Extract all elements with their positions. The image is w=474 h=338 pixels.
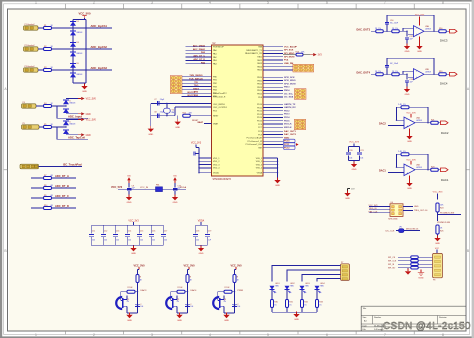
transistor Q1: [116, 297, 122, 309]
ground (reset): [177, 119, 179, 122]
resistor R5: [44, 126, 52, 129]
svg-text:ADC_DT_C: ADC_DT_C: [193, 55, 205, 58]
capacitor C9: [127, 187, 132, 189]
svg-text:ADC_DT_B: ADC_DT_B: [55, 184, 69, 188]
svg-text:USB_DM: USB_DM: [284, 63, 293, 65]
resistor pullup (Q3): [233, 275, 236, 283]
wire R25 to gnd: [437, 234, 439, 238]
svg-text:GND: GND: [127, 202, 132, 204]
diode D6 (clamp down): [70, 73, 76, 77]
ground (C19): [406, 87, 408, 90]
U2 right pins group E wires: [263, 130, 283, 132]
svg-text:IN4148: IN4148: [70, 124, 76, 126]
svg-text:VCC_3V3: VCC_3V3: [349, 142, 360, 144]
svg-text:GND: GND: [345, 198, 350, 200]
resistor R7: [44, 177, 52, 180]
bottom rail (Q1): [127, 312, 138, 314]
svg-text:R32: R32: [304, 302, 307, 304]
svg-text:SPI_CLK: SPI_CLK: [388, 261, 397, 263]
stub pin 1V2: [347, 189, 349, 193]
svg-text:R10: R10: [44, 205, 47, 207]
op-amp U3B: [414, 69, 425, 80]
svg-text:GND: GND: [127, 320, 132, 322]
resistor R19: [439, 73, 447, 76]
svg-text:6: 6: [326, 333, 328, 337]
svg-text:NC_10nF: NC_10nF: [390, 22, 399, 24]
svg-text:PD13: PD13: [284, 114, 290, 116]
svg-text:C12: C12: [104, 231, 107, 233]
wire base loop (Q2): [171, 292, 177, 301]
svg-text:TDO: TDO: [194, 85, 199, 87]
svg-text:VCC_5V0: VCC_5V0: [111, 186, 123, 189]
svg-text:104: 104: [190, 306, 193, 308]
wire LED3 resistor to rail: [301, 308, 303, 313]
ground (cap bank 2): [200, 245, 202, 247]
LED LED2: [285, 286, 290, 290]
resistor R30: [271, 300, 274, 308]
resistor pullup (Q2): [186, 275, 189, 283]
svg-text:ADC_DT_D: ADC_DT_D: [55, 204, 69, 208]
capacitor (Q2): [187, 305, 188, 306]
diode clamp up: [63, 121, 69, 125]
wire R27 to connector: [418, 260, 432, 262]
wire resistor to node (Q1): [137, 283, 139, 292]
svg-text:1: 1: [35, 333, 37, 337]
wire DAC2 input: [388, 124, 404, 126]
svg-text:GND: GND: [86, 114, 91, 116]
LED LED4: [315, 286, 320, 290]
svg-text:DAC4: DAC4: [440, 82, 448, 86]
wire bottom rail to gnd: [84, 83, 86, 86]
svg-text:VCC_3V3: VCC_3V3: [369, 205, 379, 207]
svg-text:VCC_5V0: VCC_5V0: [183, 265, 195, 268]
svg-text:R9: R9: [44, 195, 46, 197]
svg-text:3: 3: [151, 333, 153, 337]
resistor R1: [44, 27, 52, 30]
svg-text:R30: R30: [274, 302, 277, 304]
svg-text:1: 1: [173, 78, 174, 80]
svg-text:C17: C17: [164, 231, 167, 233]
svg-text:R24: R24: [440, 208, 443, 210]
ferrite bead FB1: [156, 187, 163, 192]
svg-text:104: 104: [140, 306, 143, 308]
capacitor C11 branch: [90, 225, 92, 233]
svg-text:7: 7: [173, 88, 174, 90]
svg-text:Revision: Revision: [439, 317, 447, 319]
wire diode to GND arrow: [66, 113, 78, 115]
svg-text:DAC2: DAC2: [379, 123, 386, 126]
connector P5: [22, 125, 40, 129]
screen edge strips: [0, 0, 474, 2]
power arrow 3V3: [303, 54, 310, 56]
svg-text:DAC1: DAC1: [379, 170, 386, 173]
svg-text:SPI2_MOSI: SPI2_MOSI: [284, 83, 296, 85]
svg-text:I2C_TouchPad: I2C_TouchPad: [63, 163, 82, 167]
U2 left pins group C wires: [196, 92, 212, 94]
svg-text:C20: C20: [349, 150, 352, 152]
svg-text:LM358: LM358: [416, 167, 422, 169]
svg-text:-: -: [416, 26, 417, 30]
svg-text:SPI2_MISO: SPI2_MISO: [284, 80, 296, 82]
svg-text:ADC_DMA0: ADC_DMA0: [193, 44, 206, 47]
ground (LED block): [296, 312, 298, 313]
svg-text:SPI_SCK: SPI_SCK: [284, 50, 294, 52]
crystal Y1: [164, 108, 171, 113]
feedback resistor R22: [397, 154, 402, 167]
svg-text:P1 Header2: P1 Header2: [25, 23, 35, 26]
svg-text:GND: GND: [417, 51, 422, 53]
transistor Q2: [166, 297, 172, 309]
svg-text:LM358: LM358: [425, 28, 431, 30]
resistor pullup (Q1): [136, 275, 139, 283]
capacitor C12 branch: [102, 225, 104, 233]
svg-text:I2C_SDA: I2C_SDA: [284, 96, 294, 99]
svg-text:GND: GND: [177, 320, 182, 322]
svg-text:8: 8: [178, 88, 179, 90]
svg-text:TCK_SWCLK: TCK_SWCLK: [189, 79, 203, 81]
capacitor (Q3): [234, 305, 235, 306]
resistor R4: [44, 105, 52, 108]
U2 left pins group A wires: [186, 46, 212, 48]
capacitor C14 branch: [126, 225, 128, 233]
svg-text:+: +: [416, 76, 418, 80]
svg-text:PD10/M2CLKIN: PD10/M2CLKIN: [440, 213, 455, 215]
diode D1 (clamp up): [70, 22, 76, 26]
svg-text:D3: D3: [77, 42, 79, 44]
svg-text:VCC_5V0: VCC_5V0: [79, 12, 91, 16]
port DAC3 out: [450, 29, 458, 33]
wire U3A output: [424, 30, 439, 32]
svg-text:7: 7: [305, 69, 306, 71]
svg-text:8: 8: [310, 69, 311, 71]
svg-text:104: 104: [92, 240, 95, 242]
wire resistor to node (Q2): [187, 283, 189, 292]
wire node to net label ADC_InpCh3: [73, 69, 112, 71]
svg-text:2: 2: [93, 333, 95, 337]
op-amp U5B: [404, 164, 415, 176]
svg-text:VDD_2: VDD_2: [213, 161, 220, 163]
svg-text:PcOut/TamRTC: PcOut/TamRTC: [213, 92, 228, 95]
wire U5B output: [415, 169, 431, 171]
connector P7 (LED): [341, 264, 350, 281]
svg-text:GND: GND: [224, 320, 229, 322]
capacitor C6 (vdd): [192, 152, 194, 156]
svg-text:R16: R16: [439, 28, 442, 30]
svg-text:P8: P8: [433, 280, 435, 282]
svg-text:UART4_TX: UART4_TX: [284, 103, 296, 106]
wire diode column vertical: [72, 20, 74, 84]
svg-text:C7: C7: [154, 99, 156, 101]
svg-text:BOOT1: BOOT1: [187, 95, 195, 97]
resistor R23: [431, 168, 439, 171]
svg-text:STM32F103VET6: STM32F103VET6: [213, 179, 232, 181]
ground (Q2): [179, 313, 181, 314]
svg-text:104: 104: [152, 240, 155, 242]
wire R28 to connector: [418, 263, 432, 265]
connector P2: [24, 47, 39, 51]
resistor R2: [44, 48, 52, 51]
svg-text:C15: C15: [140, 231, 143, 233]
capacitor C7 (osc in): [156, 101, 158, 106]
svg-text:PDR/WKUP: PDR/WKUP: [213, 47, 224, 49]
header J4: [294, 119, 305, 130]
svg-text:+: +: [406, 171, 408, 175]
wire resistor to diode node: [52, 105, 67, 107]
svg-text:8M: 8M: [172, 112, 175, 114]
resistor R13 (right top): [283, 54, 296, 56]
svg-text:GND: GND: [82, 91, 87, 93]
svg-text:2: 2: [178, 78, 179, 80]
connector P4: [22, 104, 37, 108]
resistor base (Q3): [232, 291, 235, 293]
svg-text:PB8_CLK: PB8_CLK: [369, 212, 378, 214]
svg-text:VCC_3V3: VCC_3V3: [128, 220, 139, 222]
wire I2C_CLK: [396, 230, 420, 232]
wire R26 to connector: [418, 256, 432, 258]
connector P1: [24, 26, 39, 30]
header J2: [293, 64, 314, 72]
ground (Q1): [129, 313, 131, 314]
resistor R3: [44, 69, 52, 72]
resistor R8: [44, 187, 52, 190]
resistor R31: [286, 300, 289, 308]
wire LED3 to resistor: [301, 290, 303, 300]
capacitor C17 branch: [162, 225, 164, 233]
svg-text:VCC_5V0: VCC_5V0: [230, 265, 242, 268]
svg-text:DAC_OUT1: DAC_OUT1: [284, 130, 297, 133]
svg-text:PcOscIn32_R: PcOscIn32_R: [213, 96, 226, 98]
svg-text:PCsVsense2_LEF: PCsVsense2_LEF: [246, 144, 263, 146]
svg-text:104: 104: [349, 157, 352, 159]
resistor R26: [411, 256, 419, 259]
svg-text:R23: R23: [431, 166, 434, 168]
wire LED1 to resistor: [271, 290, 273, 300]
svg-text:C16: C16: [152, 231, 155, 233]
svg-text:R3: R3: [44, 67, 46, 69]
cap bank bottom rail: [91, 244, 163, 246]
wire DAC4 input: [371, 73, 376, 75]
svg-text:VSS_4: VSS_4: [256, 168, 263, 170]
svg-text:C11: C11: [92, 231, 95, 233]
header J1 (JTAG rows): [170, 76, 182, 94]
capacitor C10: [173, 187, 178, 189]
svg-text:ADC_TapCoil: ADC_TapCoil: [68, 135, 85, 139]
svg-text:GND: GND: [435, 243, 440, 245]
wire P6 to net label: [39, 165, 83, 167]
svg-text:VCC_IN: VCC_IN: [140, 187, 148, 189]
svg-text:8: 8: [442, 0, 444, 4]
svg-text:104: 104: [116, 240, 119, 242]
wire base loop (Q3): [218, 292, 224, 301]
wire collector to main (Q3): [223, 296, 225, 300]
op-amp U5A: [404, 117, 415, 129]
svg-text:R31: R31: [289, 302, 292, 304]
svg-text:PD14: PD14: [284, 116, 290, 119]
svg-text:VCC_BakUP: VCC_BakUP: [284, 46, 297, 48]
resistor R32: [301, 300, 304, 308]
svg-text:7: 7: [384, 0, 386, 4]
svg-text:4: 4: [302, 94, 303, 96]
U4 left wires: [369, 205, 390, 207]
wire right of R10: [52, 207, 77, 209]
resistor R15: [392, 30, 400, 33]
svg-text:GND: GND: [199, 253, 204, 255]
wire emitter to rail (Q3): [223, 306, 225, 313]
wire minus input (DAC2): [397, 119, 405, 121]
svg-text:P5: P5: [23, 123, 25, 125]
wire SPI_SO to resistor: [398, 267, 411, 269]
svg-text:GND: GND: [86, 135, 91, 137]
svg-text:-: -: [416, 69, 417, 73]
svg-text:2K_1%: 2K_1%: [375, 28, 381, 30]
svg-text:DAC_OUT2: DAC_OUT2: [284, 133, 297, 136]
svg-text:VCC_5V0: VCC_5V0: [86, 120, 97, 122]
capacitor C20 branch: [348, 146, 350, 152]
svg-text:R13: R13: [296, 51, 299, 53]
ground (U2 VSS): [277, 178, 279, 181]
U2 right pins group D wires: [263, 103, 283, 105]
svg-text:P3 Header2: P3 Header2: [25, 65, 35, 68]
svg-text:SPI_SI: SPI_SI: [388, 264, 395, 266]
svg-text:DAC3: DAC3: [440, 39, 448, 43]
resistor R10: [44, 207, 52, 210]
svg-text:VDDA: VDDA: [180, 186, 187, 189]
wire P4 to resistor: [36, 105, 44, 107]
LED bottom rail: [272, 311, 317, 313]
resistor R14: [376, 30, 384, 33]
svg-text:R 10K: R 10K: [225, 287, 231, 289]
svg-text:D1: D1: [77, 21, 79, 23]
ground (cap pair): [353, 160, 355, 163]
svg-text:+: +: [406, 124, 408, 128]
diode clamp down: [63, 109, 69, 113]
capacitor C13 branch: [114, 225, 116, 233]
wire LED2 resistor to rail: [286, 308, 288, 313]
wire U3B output: [424, 73, 439, 75]
svg-text:CSDN @4L-2c150: CSDN @4L-2c150: [383, 321, 471, 332]
svg-text:2: 2: [302, 91, 303, 93]
resistor R9: [44, 197, 52, 200]
wire emitter to rail (Q2): [176, 306, 178, 313]
power arrow GND: [78, 113, 81, 115]
wire reset gnd stub: [177, 116, 179, 122]
svg-text:-: -: [406, 165, 407, 169]
svg-text:PCsVsense1_W: PCsVsense1_W: [247, 141, 262, 143]
svg-text:R1: R1: [44, 25, 46, 27]
LED LED1: [270, 286, 275, 290]
svg-text:C19: C19: [208, 231, 211, 233]
svg-text:VSS_1: VSS_1: [256, 158, 263, 160]
svg-text:VBAT: VBAT: [213, 122, 219, 125]
svg-text:GND: GND: [407, 188, 412, 190]
wire OSC_IN: [151, 102, 212, 104]
svg-text:PC12: PC12: [284, 147, 290, 149]
svg-text:5: 5: [297, 127, 298, 129]
svg-text:PA9/USART1_TX: PA9/USART1_TX: [246, 49, 262, 52]
svg-text:DAC2: DAC2: [441, 131, 449, 135]
wire P5 to resistor: [39, 126, 44, 128]
svg-text:GND: GND: [405, 94, 410, 96]
svg-text:2: 2: [302, 121, 303, 123]
svg-text:VBAT: VBAT: [197, 121, 203, 124]
svg-text:TRIG_OUT 4.6: TRIG_OUT 4.6: [414, 210, 428, 212]
svg-text:5: 5: [297, 97, 298, 99]
U2 right pins group C wires: [263, 76, 283, 78]
wire DAC1 input: [388, 171, 404, 173]
svg-text:OSC_IN/PD0: OSC_IN/PD0: [213, 104, 226, 106]
ground (U3A): [419, 37, 421, 46]
svg-text:PD14: PD14: [257, 117, 263, 119]
wire R16 to port: [446, 30, 449, 32]
svg-text:ADC_DT_C: ADC_DT_C: [55, 194, 69, 198]
wire diode to VCC arrow: [66, 119, 78, 121]
svg-text:3: 3: [297, 94, 298, 96]
svg-text:GND: GND: [405, 51, 410, 53]
capacitor C19 to gnd: [406, 74, 408, 79]
svg-text:GND: GND: [131, 253, 136, 255]
wires VDD bus taps: [199, 157, 212, 159]
svg-text:TDI: TDI: [194, 82, 198, 84]
wire R15 to opamp minus: [399, 30, 407, 32]
svg-text:SGND: SGND: [418, 278, 424, 280]
wire to net label: [57, 106, 88, 118]
svg-text:VDD_1: VDD_1: [213, 158, 220, 160]
IC U4 body: [390, 204, 403, 217]
wire VSS bus: [277, 158, 279, 180]
pin marker red (group E): [296, 143, 299, 146]
capacitor C16 (feedback): [386, 25, 388, 32]
wire R3 to node: [52, 69, 74, 71]
ground (cap bank 1): [133, 245, 135, 247]
ground (R25): [437, 236, 439, 239]
svg-text:VSS_2: VSS_2: [256, 161, 263, 163]
svg-text:Number: Number: [374, 317, 381, 319]
cap bank top rail: [91, 224, 163, 226]
wire R24 down: [437, 212, 439, 221]
wire R21 to port: [438, 122, 440, 124]
wire right of R9: [52, 197, 77, 199]
power arrow GND: [78, 134, 81, 136]
wire R1 to node: [52, 27, 74, 29]
wire R19 to port: [446, 73, 449, 75]
svg-text:10: 10: [178, 91, 180, 93]
svg-text:3: 3: [151, 0, 153, 4]
svg-text:MXCLKIN 4.6: MXCLKIN 4.6: [406, 229, 419, 231]
ground (U5A): [409, 129, 411, 136]
svg-text:VDD_4: VDD_4: [213, 168, 220, 170]
svg-text:VDD_3: VDD_3: [213, 164, 220, 166]
wire opamp plus input (DAC4): [408, 76, 414, 78]
svg-text:1: 1: [297, 91, 298, 93]
wire LED2 to resistor: [286, 290, 288, 300]
svg-text:R12: R12: [183, 112, 186, 114]
capacitor C17 to gnd: [406, 31, 408, 36]
svg-text:C18: C18: [196, 231, 199, 233]
ground (C9 bottom): [128, 191, 130, 197]
svg-text:TRIG_IN: TRIG_IN: [369, 208, 377, 210]
capacitor C15 branch: [138, 225, 140, 233]
svg-text:3: 3: [173, 81, 174, 83]
ground (clamp group 1): [84, 84, 86, 87]
svg-text:104: 104: [104, 240, 107, 242]
svg-text:PCsVsenseBratR: PCsVsenseBratR: [246, 137, 262, 140]
ground (stub): [347, 191, 349, 194]
title block frame: [361, 305, 466, 307]
wire SPI_CS to resistor: [398, 256, 411, 258]
capacitor C8 (osc out): [156, 113, 158, 118]
wire SPI_SI to resistor: [398, 263, 411, 265]
svg-text:DAC1: DAC1: [441, 178, 449, 182]
